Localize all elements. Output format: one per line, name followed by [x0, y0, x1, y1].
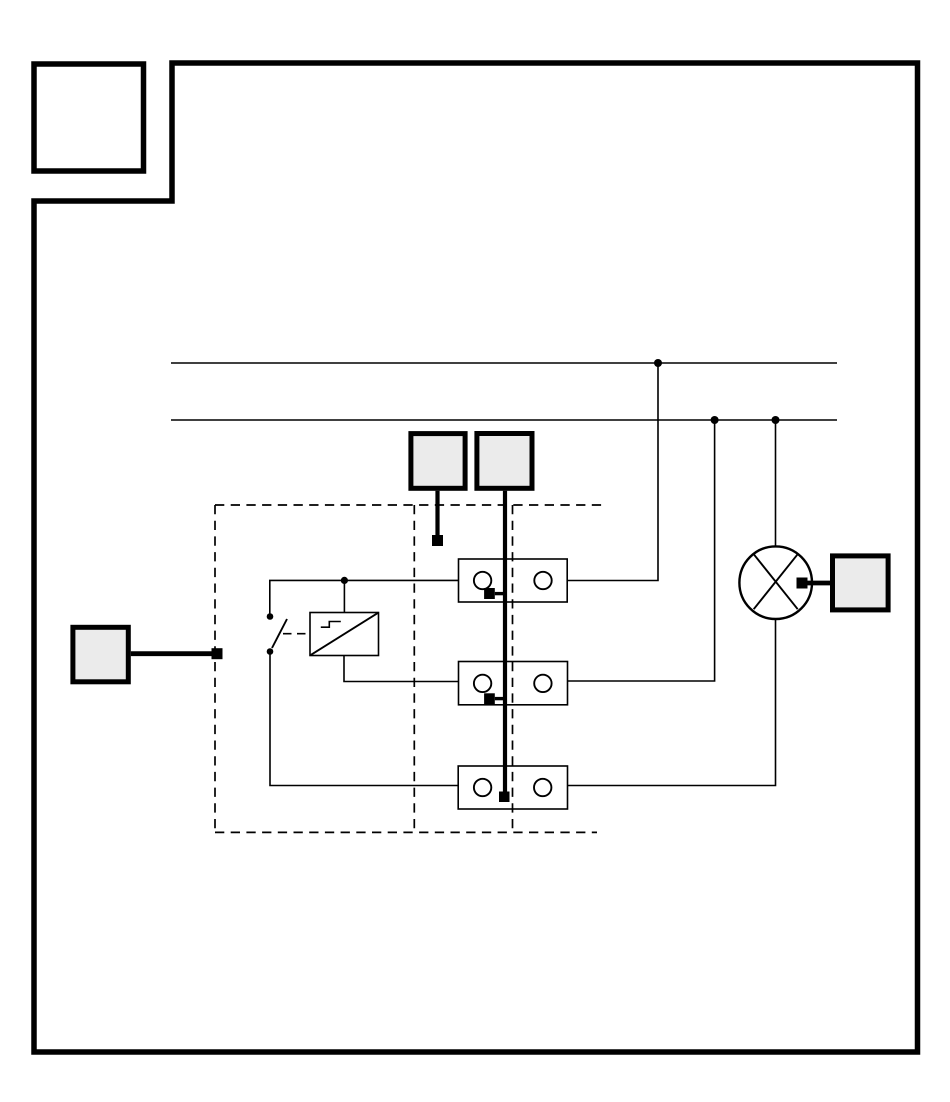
wire contact block 1 to L1 [567, 363, 658, 581]
contact block K1 [459, 559, 568, 602]
pushbutton unit box S1 [411, 434, 465, 489]
terminal square at stem bottom [499, 792, 510, 803]
wire lamp to load box [807, 581, 832, 586]
dashed enclosure top edge [215, 504, 602, 506]
switch contact upper [267, 613, 274, 620]
electronics box U1 [310, 613, 379, 656]
node on N 2 [772, 416, 780, 424]
dashed enclosure bottom edge [215, 831, 597, 833]
wire stem from S1 [435, 491, 439, 536]
terminal square in contact block 1 [484, 588, 495, 599]
switch actuator dashed link [283, 633, 310, 635]
wire N bus line [171, 419, 837, 421]
switch contact lower [267, 648, 274, 655]
terminal square in contact block 2 [484, 693, 495, 704]
wire stem from S2 to bottom terminal [503, 491, 507, 792]
electronics step symbol [321, 622, 341, 628]
stub contact block 2 to stem [495, 697, 505, 700]
node junction above electronics [341, 577, 348, 584]
dashed partition 2 [512, 505, 514, 832]
node on N 1 [711, 416, 719, 424]
wire L1 bus line [171, 362, 837, 364]
lamp E1 [739, 546, 812, 619]
terminal square on lamp [797, 578, 808, 589]
contact block K3 [458, 766, 567, 809]
terminal square of S1 stem [432, 535, 443, 546]
terminal square at insert edge [212, 648, 223, 659]
wire switch lower to contact block 3 [270, 652, 458, 786]
switch blade [272, 619, 287, 648]
stub contact block 1 to stem [495, 592, 505, 595]
wire contact block 2 to N [568, 420, 715, 681]
wire junction to electronics box [343, 580, 345, 612]
pushbutton unit box S2 [477, 434, 532, 489]
load unit box (right) [833, 556, 889, 610]
wire from S3 to insert [131, 651, 213, 656]
wire switch top to contact block 1 [270, 580, 459, 616]
node on L1 [654, 359, 662, 367]
extension unit box S3 (left) [73, 627, 128, 682]
electronics box diagonal [310, 613, 378, 656]
dashed partition 1 [413, 505, 415, 832]
wire lamp to N [775, 420, 777, 546]
contact block K2 [459, 662, 568, 705]
dashed enclosure left edge [214, 505, 216, 832]
wire electronics box to contact block 2 [344, 656, 459, 682]
wire contact block 3 to lamp [568, 619, 776, 786]
